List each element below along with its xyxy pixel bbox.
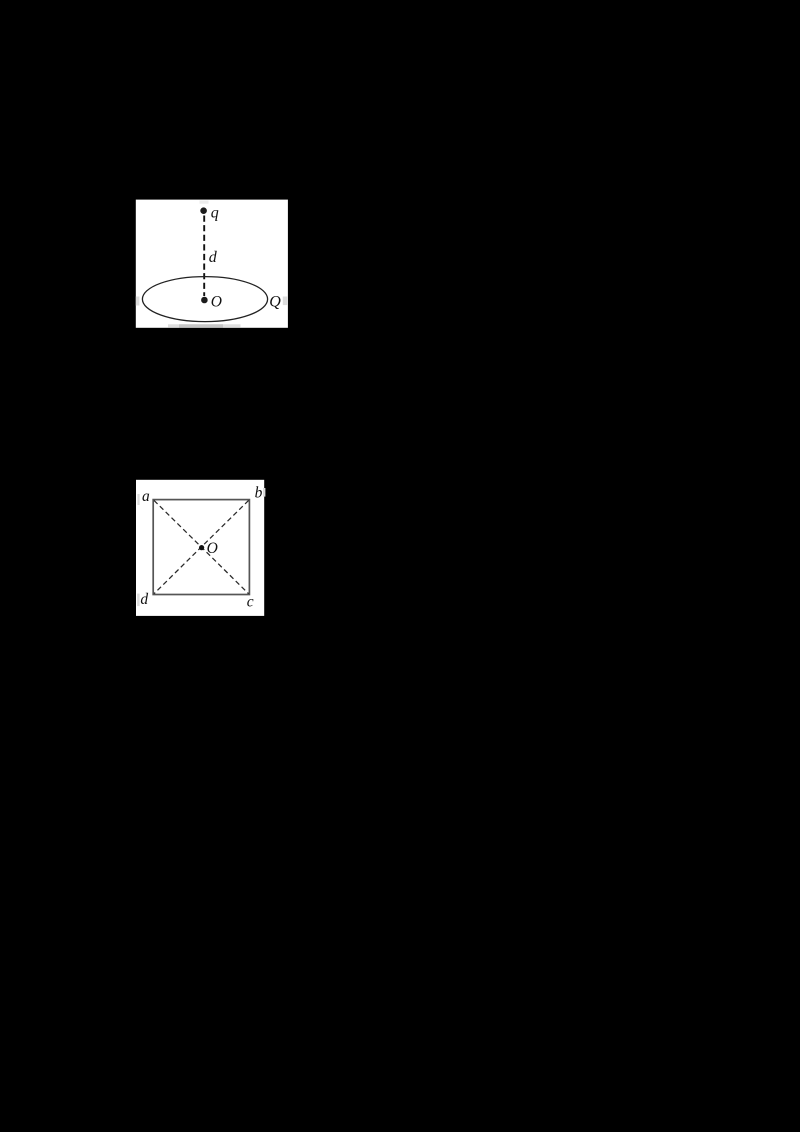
dashed line d <box>203 216 205 297</box>
svg-text:c: c <box>247 593 254 610</box>
center point O dot <box>201 297 208 304</box>
svg-text:b: b <box>255 484 263 501</box>
dashed diagonal b-d <box>154 500 249 593</box>
center dot O <box>199 545 204 550</box>
figure 1 white panel <box>136 200 288 328</box>
svg-text:d: d <box>209 249 218 266</box>
square abcd <box>153 500 249 595</box>
left edge artifact near d <box>137 594 140 607</box>
left edge artifact near a <box>137 494 139 505</box>
svg-text:Q: Q <box>269 294 281 311</box>
right edge artifact near b <box>263 488 265 497</box>
svg-text:O: O <box>207 540 218 557</box>
right edge artifact mark <box>283 297 287 306</box>
charged ring Q (ellipse) <box>142 277 267 322</box>
svg-text:q: q <box>211 205 219 222</box>
top edge artifact strip <box>200 201 209 204</box>
svg-text:O: O <box>211 293 222 310</box>
dashed diagonal a-c <box>154 500 249 593</box>
point charge q dot <box>200 207 207 214</box>
bottom artifact band <box>168 324 241 327</box>
left edge artifact mark <box>136 297 140 306</box>
svg-text:a: a <box>142 488 150 505</box>
svg-text:d: d <box>140 591 148 608</box>
bottom artifact band darker center <box>179 324 223 327</box>
figure 2 white panel <box>136 480 264 616</box>
